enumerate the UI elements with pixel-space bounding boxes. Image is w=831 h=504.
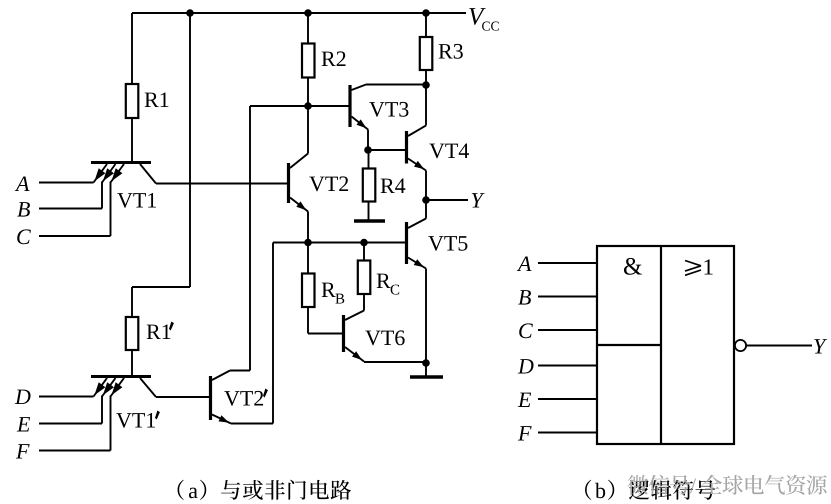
ground main [410, 375, 443, 379]
logic gate U1 box [597, 246, 734, 444]
transistor VT2 base bar [287, 163, 290, 203]
transistor VT1-prime base bar [91, 375, 151, 378]
label input A [15, 176, 30, 191]
label input C [17, 229, 31, 244]
wire input E [39, 423, 102, 425]
label gate input B [518, 290, 531, 304]
transistor VT1-prime emitter 2 [102, 378, 116, 397]
resistor RC [358, 261, 371, 295]
transistor VT1 collector [140, 164, 156, 184]
resistor R3 [420, 37, 433, 70]
label RB [322, 283, 336, 297]
label gate input D [518, 359, 534, 373]
junction R2 bottom [304, 102, 312, 110]
label VT1-prime [116, 413, 131, 428]
wire gate input D [538, 365, 597, 367]
wire R1 to VT1 base [131, 118, 133, 161]
wire input D [39, 396, 94, 398]
wire gate input B [538, 296, 597, 298]
wire VT2 emitter to node line [307, 212, 309, 243]
inverter bubble [735, 340, 746, 351]
transistor VT5 collector [408, 219, 426, 229]
ground under R4 [354, 219, 385, 223]
transistor VT4 emitter [408, 159, 426, 171]
label gate input A [517, 256, 532, 271]
wire input F [39, 450, 111, 452]
transistor VT2 emitter [290, 198, 308, 212]
transistor VT6 base bar [342, 315, 345, 352]
transistor VT2 collector [290, 154, 308, 169]
wire VT2-prime collector riser [230, 370, 250, 372]
transistor VT3 collector [352, 85, 367, 91]
wire VT3 emitter down [367, 130, 369, 151]
wire rail to R1-prime [189, 13, 191, 287]
transistor VT1-prime emitter 1 [94, 378, 108, 397]
junction rail-R2 [304, 9, 312, 17]
logic gate AND-section divider [597, 344, 661, 346]
wire VT2-prime emitter riser [231, 423, 273, 425]
transistor VT5 emitter [408, 258, 426, 269]
label gate output Y [814, 339, 827, 353]
junction RC top [360, 239, 368, 247]
label VT5 [428, 236, 443, 251]
transistor VT4 base bar [405, 131, 408, 164]
label VT6 [365, 331, 380, 346]
label R4 [381, 179, 395, 193]
wire gate input C [538, 329, 597, 331]
watermark [628, 475, 648, 495]
label OR-symbol >=1 [685, 261, 701, 266]
wire R3 down [425, 70, 427, 85]
transistor VT5 base bar [405, 222, 408, 264]
label VT1 [117, 193, 132, 208]
wire rail to R1 [131, 13, 133, 84]
label VT3 [369, 102, 384, 117]
junction VT3 emitter R4 VT4 [364, 146, 372, 154]
transistor VT1 emitter 1 [94, 164, 108, 183]
label input F [16, 444, 30, 458]
label input D [15, 390, 31, 404]
transistor VT2-prime emitter [212, 415, 231, 424]
label R1-prime [147, 325, 161, 339]
wire VT1-prime collector to VT2-prime base [156, 396, 209, 398]
transistor VT6 emitter [345, 347, 364, 362]
transistor VT1-prime collector [140, 378, 156, 397]
wire to VT4 base [368, 149, 405, 151]
label R2 [322, 52, 336, 66]
transistor VT2-prime collector [212, 371, 230, 381]
junction ground node [422, 359, 430, 367]
wire input C [39, 235, 111, 237]
transistor VT1-prime emitter 3 [111, 378, 125, 397]
junction node Y [422, 196, 430, 204]
wire VT1 collector to VT2 base [156, 183, 288, 185]
caption (a) [178, 480, 184, 500]
label VT2 [309, 177, 324, 192]
wire VT6 emitter to ground node [364, 361, 426, 363]
label input B [17, 202, 30, 216]
wire OR node line [273, 242, 407, 244]
resistor R1 [126, 84, 139, 118]
junction rail-R3 [422, 9, 430, 17]
caption (b) [585, 480, 591, 500]
wire gate input E [538, 398, 597, 400]
wire rail to R2 [307, 13, 309, 44]
wire to ground [425, 363, 427, 376]
label gate input F [518, 426, 532, 440]
wire input A [39, 182, 94, 184]
label AND symbol [624, 258, 642, 275]
resistor R1-prime [126, 317, 139, 350]
wire to VT3 base [250, 105, 350, 107]
wire node to RB [307, 243, 309, 274]
resistor R4 [363, 169, 376, 202]
junction RB top [304, 239, 312, 247]
wire input B [39, 208, 102, 210]
transistor VT3 base bar [348, 85, 351, 127]
wire node to RC [363, 243, 365, 261]
wire VT5 emitter down [425, 269, 427, 364]
transistor VT1 emitter 2 [102, 164, 116, 183]
label Y [472, 193, 485, 207]
label VCC [469, 8, 485, 25]
label gate input C [519, 323, 533, 338]
wire R1-prime to VT1-prime base [131, 350, 133, 375]
label gate input E [518, 393, 531, 407]
wire RC to VT6 collector [363, 294, 365, 311]
transistor VT4 collector [408, 126, 426, 137]
logic gate middle divider [660, 246, 662, 444]
label R1 [145, 93, 159, 107]
label RC [377, 274, 391, 288]
wire VT4 emitter to Y node [425, 171, 427, 201]
label VT4 [429, 144, 444, 159]
junction rail-R1-prime drop [186, 9, 194, 17]
transistor VT1 base bar [91, 161, 151, 164]
transistor VT2-prime base bar [209, 376, 212, 420]
wire rail to R3 [425, 13, 427, 37]
resistor R2 [302, 44, 315, 78]
label VT2-prime [224, 391, 239, 406]
wire gate input A [538, 262, 597, 264]
resistor RB [302, 274, 315, 308]
label R3 [439, 44, 453, 58]
wire gate output [746, 345, 812, 347]
transistor VT1 emitter 3 [111, 164, 125, 183]
wire RB to VT6 base [307, 307, 309, 334]
transistor VT6 collector [345, 311, 364, 321]
wire gate input F [538, 432, 597, 434]
transistor VT3 emitter [352, 117, 369, 130]
junction VT3-VT4 collector [422, 81, 430, 89]
label input E [17, 417, 30, 431]
wire VCC rail [132, 12, 466, 14]
wire R4 to ground [368, 202, 370, 220]
wire Y output [426, 199, 468, 201]
wire R2 to VT2 collector [307, 78, 309, 154]
wire node to R4 [368, 150, 370, 169]
